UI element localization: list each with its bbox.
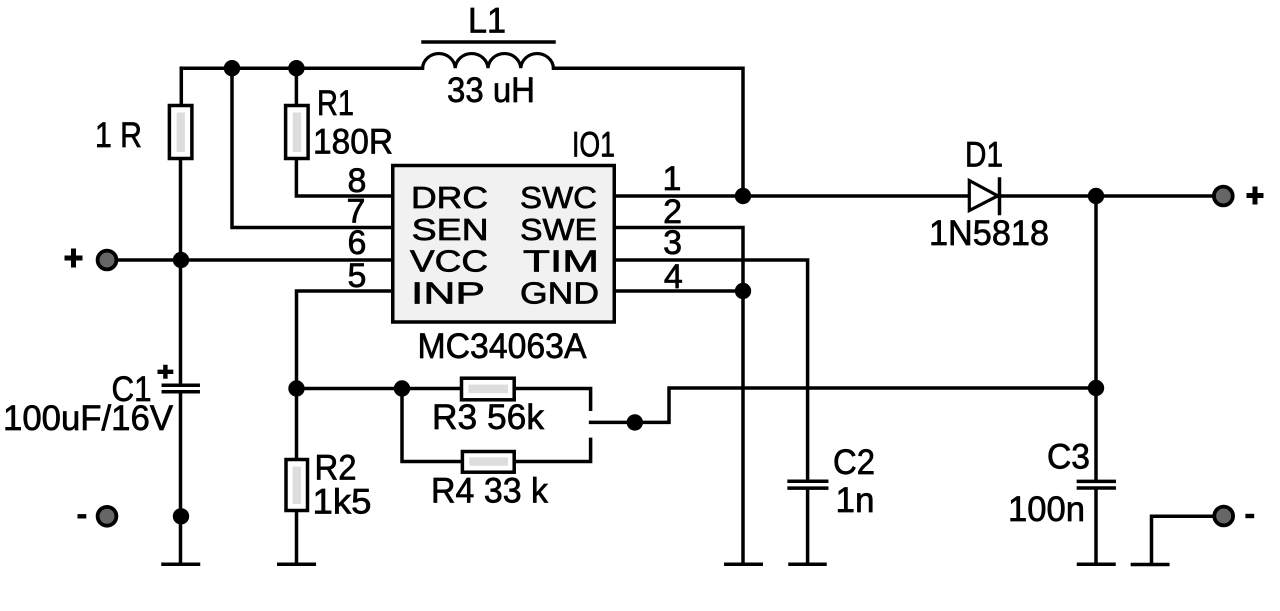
svg-text:SEN: SEN <box>412 212 489 247</box>
svg-text:3: 3 <box>663 224 682 262</box>
svg-text:SWC: SWC <box>520 180 597 215</box>
svg-text:4: 4 <box>664 258 683 296</box>
svg-text:33 uH: 33 uH <box>447 71 535 110</box>
svg-text:TIM: TIM <box>523 244 599 279</box>
svg-text:R4 33 k: R4 33 k <box>431 471 548 510</box>
svg-text:180R: 180R <box>313 123 393 162</box>
svg-text:R1: R1 <box>317 84 354 123</box>
svg-text:MC34063A: MC34063A <box>418 327 588 366</box>
svg-text:R3 56k: R3 56k <box>432 398 544 437</box>
svg-text:IO1: IO1 <box>572 126 615 165</box>
svg-text:R2: R2 <box>315 448 357 487</box>
svg-text:D1: D1 <box>965 135 1003 174</box>
svg-text:GND: GND <box>520 276 599 311</box>
svg-text:INP: INP <box>411 276 485 311</box>
svg-text:1N5818: 1N5818 <box>929 214 1049 253</box>
svg-text:5: 5 <box>348 257 367 295</box>
svg-text:L1: L1 <box>468 2 506 41</box>
svg-text:VCC: VCC <box>410 244 488 279</box>
svg-text:1n: 1n <box>836 481 875 520</box>
svg-text:SWE: SWE <box>520 212 597 247</box>
svg-text:C2: C2 <box>833 443 875 482</box>
svg-text:1k5: 1k5 <box>313 483 372 522</box>
svg-text:C3: C3 <box>1047 437 1090 476</box>
svg-text:1 R: 1 R <box>95 116 142 155</box>
svg-text:DRC: DRC <box>411 180 488 215</box>
svg-text:100uF/16V: 100uF/16V <box>3 399 174 438</box>
svg-text:100n: 100n <box>1008 490 1085 529</box>
